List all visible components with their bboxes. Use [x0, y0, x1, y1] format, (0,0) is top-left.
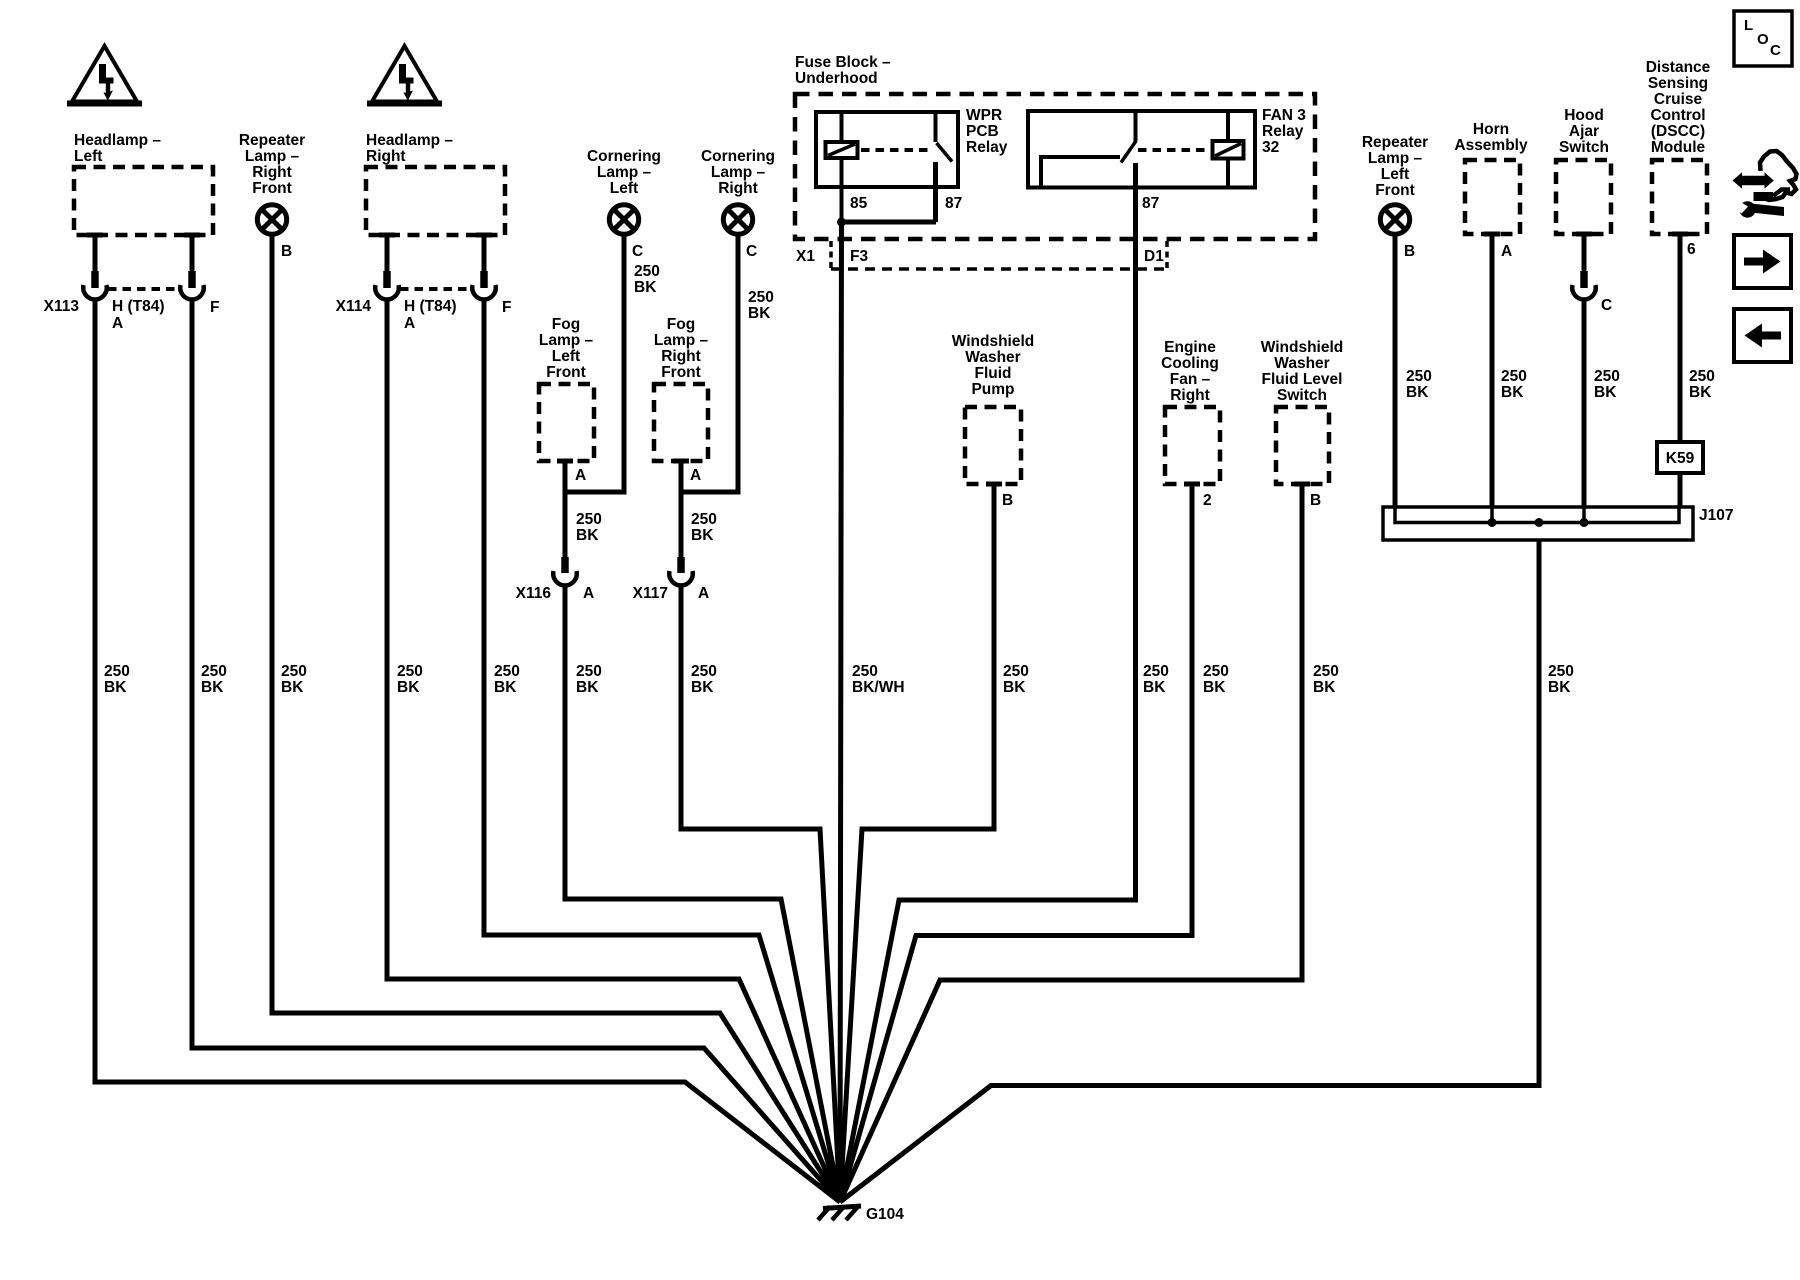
svg-text:Cornering: Cornering: [587, 148, 661, 165]
svg-text:B: B: [281, 243, 292, 260]
svg-text:BK: BK: [1003, 679, 1026, 696]
svg-text:250: 250: [691, 663, 717, 680]
svg-text:F3: F3: [850, 248, 868, 265]
svg-text:BK: BK: [1548, 679, 1571, 696]
svg-text:Ajar: Ajar: [1569, 123, 1599, 140]
svg-text:250: 250: [852, 663, 878, 680]
svg-text:A: A: [112, 315, 123, 332]
svg-text:D1: D1: [1144, 248, 1164, 265]
svg-text:BK: BK: [691, 679, 714, 696]
svg-text:X117: X117: [633, 585, 668, 602]
svg-text:250: 250: [634, 263, 660, 280]
svg-text:Lamp –: Lamp –: [1368, 150, 1423, 167]
svg-text:Right: Right: [661, 348, 701, 365]
svg-text:Right: Right: [1170, 387, 1210, 404]
svg-text:250: 250: [576, 511, 602, 528]
svg-text:Windshield: Windshield: [952, 333, 1035, 350]
svg-text:250: 250: [104, 663, 130, 680]
svg-text:Module: Module: [1651, 139, 1706, 156]
svg-text:Fan –: Fan –: [1170, 371, 1211, 388]
svg-text:BK: BK: [104, 679, 127, 696]
svg-text:BK: BK: [1313, 679, 1336, 696]
svg-text:250: 250: [1003, 663, 1029, 680]
svg-text:J107: J107: [1699, 507, 1733, 524]
svg-text:BK: BK: [634, 279, 657, 296]
svg-text:Hood: Hood: [1564, 107, 1604, 124]
svg-text:BK: BK: [1594, 384, 1617, 401]
svg-text:Left: Left: [552, 348, 580, 365]
svg-text:Cooling: Cooling: [1161, 355, 1219, 372]
svg-text:Repeater: Repeater: [1362, 134, 1428, 151]
svg-text:BK: BK: [1689, 384, 1712, 401]
svg-text:Windshield: Windshield: [1261, 339, 1344, 356]
svg-text:Assembly: Assembly: [1454, 137, 1528, 154]
svg-text:F: F: [502, 299, 511, 316]
svg-text:Headlamp –: Headlamp –: [366, 132, 453, 149]
svg-text:85: 85: [850, 195, 868, 212]
svg-text:Control: Control: [1650, 107, 1705, 124]
svg-text:Front: Front: [546, 364, 586, 381]
svg-text:Lamp –: Lamp –: [245, 148, 300, 165]
svg-text:A: A: [575, 467, 586, 484]
svg-text:BK: BK: [748, 305, 771, 322]
svg-text:B: B: [1002, 492, 1013, 509]
svg-text:BK: BK: [281, 679, 304, 696]
svg-text:250: 250: [576, 663, 602, 680]
svg-text:WPR: WPR: [966, 107, 1002, 124]
svg-text:O: O: [1757, 31, 1769, 48]
svg-text:250: 250: [201, 663, 227, 680]
svg-text:Headlamp –: Headlamp –: [74, 132, 161, 149]
svg-text:BK: BK: [201, 679, 224, 696]
svg-text:A: A: [404, 315, 415, 332]
svg-text:X114: X114: [336, 298, 372, 315]
svg-text:6: 6: [1687, 241, 1696, 258]
svg-text:BK: BK: [1143, 679, 1166, 696]
svg-text:250: 250: [397, 663, 423, 680]
svg-text:Left: Left: [610, 180, 638, 197]
svg-text:250: 250: [1203, 663, 1229, 680]
svg-text:Washer: Washer: [1274, 355, 1329, 372]
svg-text:C: C: [1770, 42, 1781, 59]
svg-text:B: B: [1404, 243, 1415, 260]
svg-text:Left: Left: [1381, 166, 1409, 183]
svg-text:Lamp –: Lamp –: [539, 332, 594, 349]
svg-text:Relay: Relay: [1262, 123, 1304, 140]
svg-text:Cruise: Cruise: [1654, 91, 1703, 108]
svg-text:Fog: Fog: [552, 316, 580, 333]
svg-text:C: C: [746, 243, 757, 260]
svg-text:Cornering: Cornering: [701, 148, 775, 165]
svg-text:K59: K59: [1666, 450, 1695, 467]
svg-text:Right: Right: [252, 164, 292, 181]
svg-text:Repeater: Repeater: [239, 132, 305, 149]
svg-text:F: F: [210, 299, 219, 316]
svg-text:Pump: Pump: [971, 381, 1014, 398]
svg-text:BK: BK: [576, 679, 599, 696]
svg-text:2: 2: [1203, 492, 1212, 509]
svg-text:BK: BK: [1203, 679, 1226, 696]
svg-text:250: 250: [1143, 663, 1169, 680]
svg-text:Engine: Engine: [1164, 339, 1216, 356]
svg-text:250: 250: [494, 663, 520, 680]
svg-text:Lamp –: Lamp –: [654, 332, 709, 349]
svg-text:Front: Front: [661, 364, 701, 381]
svg-text:Sensing: Sensing: [1648, 75, 1708, 92]
svg-text:Right: Right: [366, 148, 406, 165]
svg-text:250: 250: [1406, 368, 1432, 385]
svg-text:X1: X1: [796, 248, 815, 265]
svg-text:X116: X116: [516, 585, 552, 602]
svg-text:H (T84): H (T84): [404, 298, 457, 315]
svg-text:Distance: Distance: [1646, 59, 1711, 76]
svg-text:87: 87: [1142, 195, 1159, 212]
svg-text:FAN 3: FAN 3: [1262, 107, 1306, 124]
svg-text:A: A: [1501, 243, 1512, 260]
svg-text:Fluid: Fluid: [974, 365, 1011, 382]
svg-text:BK: BK: [576, 527, 599, 544]
svg-text:L: L: [1744, 17, 1753, 34]
svg-text:Fuse Block –: Fuse Block –: [795, 54, 891, 71]
svg-text:X113: X113: [44, 298, 80, 315]
svg-text:B: B: [1310, 492, 1321, 509]
svg-text:Washer: Washer: [965, 349, 1020, 366]
svg-text:BK: BK: [397, 679, 420, 696]
svg-text:Fog: Fog: [667, 316, 695, 333]
svg-text:A: A: [583, 585, 594, 602]
svg-text:C: C: [1601, 297, 1612, 314]
svg-text:250: 250: [748, 289, 774, 306]
svg-text:250: 250: [281, 663, 307, 680]
svg-text:A: A: [698, 585, 709, 602]
svg-text:G104: G104: [866, 1206, 904, 1223]
svg-text:32: 32: [1262, 139, 1279, 156]
svg-text:87: 87: [945, 195, 962, 212]
svg-text:Front: Front: [252, 180, 292, 197]
svg-text:Lamp –: Lamp –: [597, 164, 652, 181]
svg-text:BK: BK: [1406, 384, 1429, 401]
svg-text:A: A: [690, 467, 701, 484]
svg-text:PCB: PCB: [966, 123, 999, 140]
svg-text:(DSCC): (DSCC): [1651, 123, 1705, 140]
svg-text:Switch: Switch: [1277, 387, 1327, 404]
svg-text:250: 250: [691, 511, 717, 528]
svg-text:Fluid Level: Fluid Level: [1262, 371, 1343, 388]
svg-text:Left: Left: [74, 148, 102, 165]
svg-text:Front: Front: [1375, 182, 1415, 199]
svg-text:BK: BK: [1501, 384, 1524, 401]
svg-text:BK: BK: [494, 679, 517, 696]
svg-text:Lamp –: Lamp –: [711, 164, 766, 181]
svg-text:Switch: Switch: [1559, 139, 1609, 156]
svg-text:Underhood: Underhood: [795, 70, 878, 87]
svg-text:250: 250: [1313, 663, 1339, 680]
svg-text:250: 250: [1594, 368, 1620, 385]
svg-text:Horn: Horn: [1473, 121, 1509, 138]
svg-text:BK/WH: BK/WH: [852, 679, 905, 696]
svg-text:H (T84): H (T84): [112, 298, 165, 315]
svg-text:Right: Right: [718, 180, 758, 197]
svg-text:250: 250: [1501, 368, 1527, 385]
svg-text:BK: BK: [691, 527, 714, 544]
svg-text:250: 250: [1689, 368, 1715, 385]
svg-text:250: 250: [1548, 663, 1574, 680]
svg-text:C: C: [632, 243, 643, 260]
svg-text:Relay: Relay: [966, 139, 1008, 156]
